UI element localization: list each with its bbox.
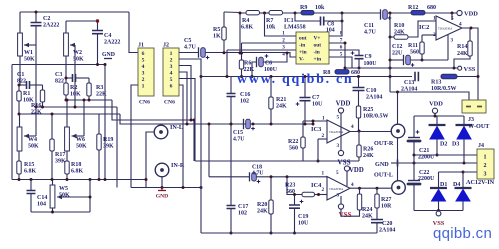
svg-text:4.7U: 4.7U — [252, 171, 264, 177]
svg-text:D4: D4 — [453, 182, 460, 188]
node C2 top — [35, 11, 38, 14]
capacitor C8 feedback — [295, 13, 321, 21]
svg-text:R23: R23 — [285, 183, 295, 189]
wire R9 right — [314, 12, 381, 14]
svg-text:GND: GND — [156, 194, 168, 200]
wire W2 top — [65, 21, 67, 33]
svg-text:C2: C2 — [43, 16, 50, 22]
op-amp IC4 — [327, 177, 350, 201]
svg-text:822: 822 — [17, 79, 26, 85]
wire W1 wiper to C2 node — [24, 44, 36, 46]
svg-text:IC1: IC1 — [284, 18, 294, 24]
wire IC4 output row — [350, 187, 392, 189]
wire input line y53 — [206, 53, 297, 58]
svg-text:6.8K: 6.8K — [24, 169, 37, 175]
capacitor C4 — [97, 21, 99, 30]
wire bottom rail y233 — [201, 232, 377, 234]
svg-text:J1: J1 — [138, 43, 144, 49]
svg-text:560: 560 — [410, 50, 419, 56]
resistor R14 — [469, 28, 471, 41]
terminal VDD mid — [338, 108, 343, 113]
svg-text:C3: C3 — [55, 72, 62, 78]
capacitor C18 — [208, 124, 210, 177]
wire J1 pin1 down to gnd rail — [131, 85, 138, 188]
wire J2 pin4 — [179, 72, 187, 124]
wire R7 to R9 — [283, 12, 302, 14]
svg-text:C20: C20 — [382, 221, 392, 227]
svg-text:VDD: VDD — [349, 167, 364, 174]
wire W4 wiper to bus — [24, 135, 36, 137]
terminal VSS bottom — [438, 210, 440, 213]
wire y155 to J4 pin1 — [414, 154, 477, 156]
resistor R19 — [98, 114, 100, 134]
svg-text:R5: R5 — [213, 27, 220, 33]
wire W2 bottom to C3 row — [65, 56, 67, 78]
capacitor C3 — [73, 74, 76, 82]
svg-text:24K: 24K — [457, 51, 468, 57]
svg-text:D2: D2 — [440, 142, 447, 148]
svg-text:50K: 50K — [28, 144, 39, 150]
svg-text:6: 6 — [142, 51, 145, 57]
svg-text:R15: R15 — [24, 162, 34, 168]
svg-text:4: 4 — [282, 52, 285, 58]
op-amp IC3 — [327, 120, 350, 143]
svg-text:2: 2 — [322, 187, 325, 193]
svg-text:R22: R22 — [288, 139, 298, 145]
wire IC2 pin3 — [447, 35, 449, 60]
svg-text:102: 102 — [240, 99, 249, 105]
jack IN-R — [155, 163, 169, 177]
svg-text:1K: 1K — [213, 34, 221, 40]
wire bus y107 — [36, 106, 117, 108]
svg-text:2A104: 2A104 — [379, 228, 395, 234]
svg-text:C7: C7 — [312, 95, 319, 101]
svg-text:3: 3 — [337, 143, 340, 149]
wire W6 wiper — [72, 135, 85, 137]
svg-text:W6: W6 — [76, 137, 85, 143]
svg-text:VDD: VDD — [464, 11, 478, 18]
wire bottom VSS rail — [414, 210, 463, 212]
wire bus y107 drop x117 — [116, 107, 118, 188]
svg-text:1: 1 — [282, 31, 285, 37]
wire W5 wiper — [57, 196, 90, 198]
wire IC2 pin5 from VDD rail — [451, 13, 453, 20]
svg-text:V+: V+ — [314, 36, 321, 42]
svg-text:3: 3 — [170, 64, 173, 70]
svg-text:R11: R11 — [408, 43, 418, 49]
terminal VDD power — [432, 108, 437, 113]
svg-text:C18: C18 — [252, 165, 262, 171]
wire C21 column — [413, 116, 415, 137]
wire x194 drop to IC3 row — [193, 120, 195, 161]
wire IC1 pin7 to rail — [329, 43, 345, 68]
svg-text:3: 3 — [484, 171, 487, 177]
capacitor C17 — [227, 206, 236, 209]
wire top rail to C4 — [66, 20, 98, 22]
resistor R5 — [223, 12, 225, 27]
wire R13 to J3 — [457, 76, 478, 78]
wire wiper node down to bus — [35, 45, 37, 107]
wire GND row y163 to J4 pin2 — [398, 162, 478, 164]
svg-text:R26: R26 — [363, 147, 373, 153]
svg-text:560: 560 — [289, 146, 298, 152]
svg-text:C14: C14 — [37, 195, 47, 201]
jack OUT-L — [392, 181, 406, 195]
svg-text:10U: 10U — [298, 221, 309, 227]
svg-text:R10: R10 — [394, 23, 404, 29]
wire J2 pin3 — [179, 66, 191, 121]
wire J2 pin6 — [179, 85, 183, 188]
resistor R21 — [270, 77, 272, 98]
svg-text:C4: C4 — [104, 33, 111, 39]
wire IC1 pin8 — [329, 13, 342, 36]
svg-text:W1: W1 — [24, 50, 33, 56]
svg-text:CN6: CN6 — [164, 100, 175, 106]
resistor R17 — [51, 114, 53, 139]
svg-text:R4: R4 — [242, 18, 249, 24]
op-amp IC2 — [436, 16, 462, 40]
wire R10 to IC2 pin1 — [408, 21, 436, 37]
svg-text:J4: J4 — [478, 143, 484, 149]
resistor R6 — [241, 53, 243, 60]
svg-text:39K: 39K — [103, 144, 114, 150]
svg-text:+in: +in — [314, 57, 322, 63]
potentiometer W5 — [52, 180, 54, 186]
wire bottom y212 — [31, 211, 90, 213]
svg-text:R24: R24 — [362, 207, 372, 213]
terminal VDD top right — [457, 10, 462, 15]
svg-text:6.8K: 6.8K — [241, 25, 254, 31]
svg-text:3: 3 — [282, 45, 285, 51]
node C4 bottom on y64 row — [96, 63, 99, 66]
svg-text:R6: R6 — [244, 61, 251, 67]
wire J2 pin5 — [179, 79, 195, 162]
capacitor C15 on bus — [243, 119, 245, 129]
potentiometer W4 — [19, 114, 21, 127]
svg-text:822: 822 — [55, 79, 64, 85]
resistor R27 — [376, 188, 378, 194]
capacitor C10 — [358, 77, 360, 88]
svg-text:R2: R2 — [70, 85, 77, 91]
svg-text:104: 104 — [326, 28, 335, 34]
svg-text:GND: GND — [102, 52, 115, 58]
svg-text:R25: R25 — [363, 107, 373, 113]
wire IN-R down — [161, 176, 163, 187]
svg-text:22U: 22U — [392, 51, 403, 57]
svg-text:IC4: IC4 — [311, 182, 322, 189]
wire x105 vertical — [104, 65, 106, 180]
resistor R7 — [269, 11, 283, 15]
svg-text:2: 2 — [484, 163, 487, 169]
svg-text:10k: 10k — [266, 25, 276, 31]
resistor R2 — [65, 78, 67, 83]
wire W1 bottom to C1 row — [19, 56, 21, 85]
svg-text:R27: R27 — [381, 197, 391, 203]
svg-text:4: 4 — [170, 71, 173, 77]
capacitor C13 — [415, 72, 418, 82]
svg-text:R20: R20 — [257, 202, 267, 208]
svg-text:VDD: VDD — [336, 101, 351, 108]
svg-text:GND: GND — [375, 161, 389, 168]
wire IC1 pin5 — [329, 57, 352, 68]
svg-text:24K: 24K — [394, 30, 405, 36]
resistor R20 — [270, 177, 272, 200]
svg-text:24K: 24K — [362, 214, 373, 220]
resistor R16 — [42, 85, 44, 90]
svg-text:VDD: VDD — [429, 101, 443, 108]
connector J3 W-OUT — [462, 100, 486, 113]
svg-text:C9: C9 — [365, 54, 372, 60]
svg-text:2200U: 2200U — [418, 176, 435, 182]
wire top rail drop to J1 pin6 — [129, 12, 138, 53]
svg-text:4: 4 — [351, 124, 354, 130]
wire W1 top — [19, 12, 21, 33]
svg-text:4.7U: 4.7U — [364, 30, 377, 36]
svg-text:V-: V- — [299, 57, 304, 63]
wire bottom-left rail — [12, 179, 146, 181]
wire bus y100 drop x112 — [112, 100, 194, 120]
wire IC3 pin1 row — [303, 120, 327, 122]
resistor R24 — [359, 188, 361, 194]
svg-text:out: out — [314, 43, 322, 49]
svg-text:C19: C19 — [298, 214, 308, 220]
svg-text:2A222: 2A222 — [104, 40, 120, 46]
potentiometer W6 — [66, 100, 68, 127]
svg-text:R21: R21 — [276, 97, 286, 103]
capacitor C12 — [403, 55, 405, 65]
resistor R1 — [18, 85, 20, 91]
svg-text:OUT-R: OUT-R — [374, 140, 394, 147]
diode D2 — [436, 116, 438, 124]
svg-text:C12: C12 — [392, 44, 402, 50]
op-amp IC1 LM4558 body — [296, 32, 329, 64]
capacitor C21 — [408, 137, 420, 139]
wire R5 top to R4 node — [224, 11, 240, 14]
capacitor C19 — [294, 195, 296, 206]
potentiometer W2 — [64, 33, 69, 56]
resistor R12 blue — [411, 11, 425, 15]
wire top box y116 — [414, 115, 464, 117]
wire bus y114 — [19, 113, 120, 115]
wire R1 bottom to y114 bus — [18, 101, 20, 114]
svg-text:R17: R17 — [55, 152, 65, 158]
wire IC1 pin6 to C9 — [329, 50, 359, 56]
svg-text:C5: C5 — [184, 38, 191, 44]
svg-text:10k: 10k — [315, 5, 325, 11]
svg-text:5: 5 — [337, 115, 340, 121]
svg-text:6.8K: 6.8K — [71, 169, 84, 175]
capacitor C20 — [371, 220, 383, 223]
resistor R11 — [420, 42, 424, 54]
svg-text:10R/0.5W: 10R/0.5W — [431, 86, 457, 92]
wire IC1 pin2 row — [242, 42, 297, 44]
node R1 top — [18, 84, 21, 87]
resistor R18 — [66, 151, 68, 161]
wire left border vertical — [11, 65, 13, 180]
svg-text:1: 1 — [322, 171, 325, 177]
svg-text:www. qqibb. cn: www. qqibb. cn — [237, 72, 353, 87]
svg-text:2: 2 — [322, 133, 325, 139]
svg-text:102: 102 — [238, 211, 247, 217]
resistor R3 — [88, 78, 90, 83]
svg-text:3: 3 — [142, 71, 145, 77]
wire J2 pin2 long vertical — [179, 59, 201, 233]
svg-text:AC12V-IN: AC12V-IN — [466, 179, 495, 186]
svg-text:4: 4 — [459, 22, 462, 28]
svg-text:24K: 24K — [257, 209, 268, 215]
svg-text:LM4558: LM4558 — [284, 25, 306, 31]
svg-text:C21: C21 — [419, 148, 429, 154]
capacitor C7 — [304, 77, 306, 98]
svg-text:680: 680 — [427, 5, 436, 11]
svg-text:out: out — [299, 36, 307, 42]
svg-text:R19: R19 — [103, 137, 113, 143]
svg-text:1: 1 — [433, 16, 436, 22]
jack OUT-R — [391, 124, 405, 138]
svg-text:5: 5 — [142, 58, 145, 64]
capacitor C9 — [355, 56, 364, 59]
svg-text:24K: 24K — [276, 104, 287, 110]
svg-text:D3: D3 — [452, 142, 459, 148]
resistor R25 — [356, 106, 360, 118]
wire mid rail y76.5 — [201, 76, 412, 78]
svg-text:C15: C15 — [233, 130, 243, 136]
svg-text:TDA2030A: TDA2030A — [438, 27, 453, 31]
svg-text:R12: R12 — [408, 5, 418, 11]
svg-text:-in: -in — [314, 50, 320, 56]
node R4-R7 — [260, 12, 270, 14]
svg-text:4.7U: 4.7U — [184, 45, 197, 51]
terminal VSS top right — [458, 66, 462, 70]
resistor R8 blue — [335, 70, 349, 74]
wire R4 left down to input — [239, 13, 241, 53]
svg-text:50K: 50K — [76, 144, 87, 150]
diode D1 — [438, 172, 440, 187]
svg-text:IC3: IC3 — [311, 126, 321, 133]
svg-text:10U: 10U — [312, 102, 323, 108]
wire x390 vertical — [389, 13, 391, 92]
wire VSS rail y68 — [345, 67, 458, 69]
wire C12 row y60 — [390, 59, 404, 61]
svg-text:2: 2 — [282, 38, 285, 44]
capacitor C16 — [230, 77, 232, 94]
svg-text:OUT-L: OUT-L — [374, 172, 393, 179]
svg-text:R13: R13 — [431, 80, 441, 86]
resistor R15 — [18, 151, 20, 161]
svg-text:2: 2 — [170, 58, 173, 64]
capacitor C2 — [35, 12, 37, 22]
wire pin4 to J3 — [462, 28, 478, 100]
connector J2 CN6 — [163, 48, 179, 96]
svg-text:2A222: 2A222 — [43, 23, 59, 29]
svg-text:50K: 50K — [24, 57, 35, 63]
wire top-left rail — [20, 11, 129, 13]
svg-text:1: 1 — [142, 84, 145, 90]
svg-text:C13: C13 — [404, 80, 414, 86]
wire IC3 bottom row y161 — [195, 160, 359, 162]
wire bus y114 drop x120 to y124 — [120, 114, 313, 124]
wire gnd rail y187.5 — [131, 187, 201, 189]
diode D4 — [462, 172, 464, 187]
svg-text:R7: R7 — [266, 18, 273, 24]
wire IC2 pin2 from R11 — [422, 34, 436, 36]
svg-text:-in: -in — [299, 43, 305, 49]
wire IC3 pin2 — [318, 138, 327, 140]
svg-text:C11: C11 — [364, 23, 374, 29]
wire IC1 pin3 row — [227, 49, 296, 51]
wire jack column with GND tick — [397, 137, 399, 181]
svg-text:W-OUT: W-OUT — [468, 123, 490, 130]
resistor R4 — [246, 11, 260, 15]
capacitor C5 — [198, 47, 200, 57]
svg-text:IN-L: IN-L — [170, 124, 183, 131]
svg-text:10R: 10R — [381, 204, 392, 210]
wire W2 wiper — [70, 44, 75, 46]
svg-text:qqibb.cn: qqibb.cn — [433, 225, 492, 242]
svg-text:D1: D1 — [440, 182, 447, 188]
resistor R9 blue — [301, 11, 314, 15]
svg-text:1: 1 — [170, 51, 173, 57]
svg-text:4.7U: 4.7U — [233, 137, 245, 143]
svg-text:5: 5 — [336, 170, 339, 176]
svg-text:CN6: CN6 — [139, 100, 150, 106]
svg-text:4: 4 — [142, 64, 145, 70]
wire IC3 output to OUT-R — [350, 131, 392, 133]
capacitor C14 — [30, 180, 32, 191]
wire J2 pin1 to C5 — [179, 52, 198, 54]
svg-text:R18: R18 — [71, 162, 81, 168]
ground tick — [391, 162, 398, 164]
svg-text:J2: J2 — [163, 43, 169, 49]
wire IC3 pin3 to VSS — [338, 150, 343, 155]
wire y92 line — [390, 92, 469, 100]
ground symbol — [158, 188, 166, 191]
svg-text:R14: R14 — [457, 44, 467, 50]
wire main top rail y13 — [240, 12, 246, 15]
svg-text:24K: 24K — [363, 153, 374, 159]
wire y172 to J4 pin3 — [439, 171, 478, 173]
connector J4 — [477, 149, 494, 179]
svg-text:1: 1 — [484, 155, 487, 161]
svg-text:2: 2 — [142, 77, 145, 83]
wire C11 to R12 — [388, 12, 411, 14]
svg-text:C22: C22 — [419, 170, 429, 176]
capacitor C22 — [408, 180, 420, 182]
wire IC4 pin3 VSS — [340, 196, 342, 204]
svg-text:+in: +in — [299, 50, 307, 56]
svg-text:W2: W2 — [73, 50, 82, 56]
svg-text:W4: W4 — [28, 137, 37, 143]
wire OUT-R feed from y92 — [397, 92, 399, 125]
resistor R13 blue — [441, 74, 457, 78]
wire R26 top to output — [358, 131, 360, 145]
svg-text:C6: C6 — [265, 61, 272, 67]
svg-text:2A104: 2A104 — [366, 95, 382, 101]
svg-text:R3: R3 — [96, 85, 103, 91]
svg-text:10K: 10K — [70, 92, 81, 98]
connector J1 CN6 — [138, 48, 154, 96]
svg-text:W5: W5 — [59, 186, 68, 192]
jack IN-L — [154, 125, 168, 139]
capacitor C6 — [264, 53, 288, 62]
svg-text:3: 3 — [451, 38, 454, 44]
svg-text:C16: C16 — [240, 92, 250, 98]
diode D3 — [463, 116, 465, 124]
resistor R26 — [358, 157, 360, 161]
terminal VDD at IC4 — [344, 166, 349, 171]
wire IN-L to gnd rail — [146, 132, 155, 188]
wire IC1 pin1 feedback — [265, 13, 297, 36]
